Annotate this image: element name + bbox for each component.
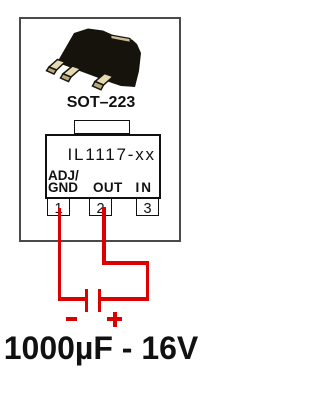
label SOT-223 xyxy=(20,94,182,112)
polarity plus sign xyxy=(107,317,122,321)
pin label ADJ/GND xyxy=(48,170,79,195)
SOT-223 package photo (transistor package drawing) xyxy=(40,22,146,94)
wire capacitor right horizontal xyxy=(101,297,149,301)
capacitor C1 left plate xyxy=(85,289,89,312)
pin box 2 xyxy=(89,197,112,216)
wire from pin 2 (vertical) xyxy=(102,207,106,265)
label IL1117-xx xyxy=(68,145,156,165)
wire jog pin2 horizontal xyxy=(102,261,149,265)
outer border frame xyxy=(19,17,181,242)
wire right vertical xyxy=(146,261,150,301)
value label 1000uF - 16V xyxy=(0,330,202,367)
polarity minus sign xyxy=(66,317,77,321)
capacitor C1 right plate xyxy=(98,289,102,312)
IC tab rectangle xyxy=(74,120,130,134)
lead 3 xyxy=(95,74,113,86)
pin label IN xyxy=(136,180,154,195)
lead 1 xyxy=(49,60,65,71)
package body xyxy=(57,29,141,88)
lead 2 xyxy=(63,66,81,77)
pin label OUT xyxy=(93,180,123,195)
tab lead xyxy=(111,35,131,43)
pin box 3 xyxy=(136,197,159,216)
IC body rectangle U1 xyxy=(45,134,161,199)
pin box 1 xyxy=(47,197,70,216)
wire from pin 1 (vertical) xyxy=(58,208,62,301)
wire capacitor left horizontal xyxy=(58,297,85,301)
